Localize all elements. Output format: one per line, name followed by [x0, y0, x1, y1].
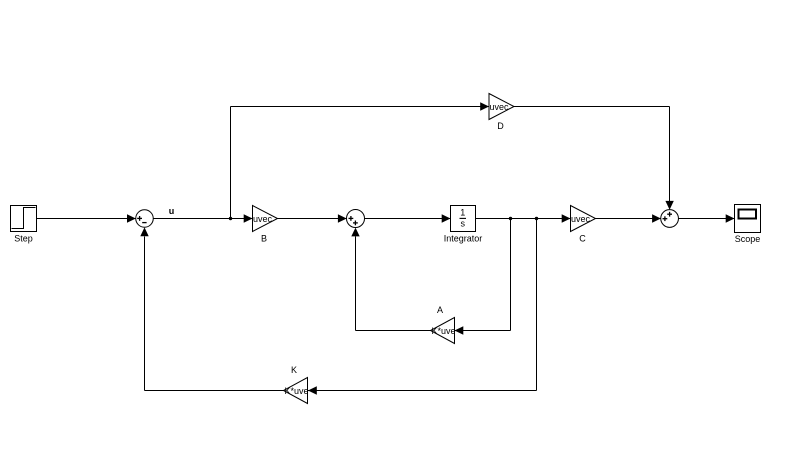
svg-text:D: D	[497, 121, 504, 131]
svg-text:B: B	[261, 233, 267, 243]
wire gain C to Sum3	[596, 218, 661, 220]
junction dot node to A feedback	[509, 217, 512, 220]
arrowhead into Sum3 left	[652, 214, 661, 222]
gain D	[489, 94, 514, 120]
svg-text:Scope: Scope	[735, 234, 761, 244]
wire Integrator to gain C	[476, 218, 571, 220]
svg-text:A: A	[437, 305, 443, 315]
svg-text:1: 1	[460, 208, 465, 218]
arrowhead into gain A	[455, 326, 464, 334]
arrowhead into Sum1	[127, 214, 136, 222]
wire gain K to Sum1 bottom	[145, 390, 284, 392]
junction dot node at branch to D	[229, 217, 232, 220]
arrowhead into gain K	[308, 386, 317, 394]
arrowhead into Integrator	[442, 214, 451, 222]
arrowhead into gain B	[244, 214, 253, 222]
svg-text:u: u	[169, 206, 175, 216]
scope block	[735, 205, 761, 233]
wire Step to Sum1	[37, 218, 136, 220]
arrowhead up into Sum2 bottom	[351, 228, 359, 237]
svg-text:Integrator: Integrator	[444, 233, 483, 243]
svg-text:K*uve: K*uve	[431, 326, 455, 336]
wire A branch vertical from junction	[510, 219, 512, 331]
wire gain D to Sum3 top	[514, 106, 670, 108]
junction dot node to K feedback	[535, 217, 538, 220]
wire branch up to D line	[230, 107, 232, 219]
sum junction Sum1	[136, 210, 154, 228]
integrator block 1/s	[451, 206, 476, 232]
wire K branch horizontal	[308, 390, 537, 392]
wire D branch horizontal top	[231, 106, 490, 108]
sum junction Sum2	[347, 210, 365, 228]
sum junction Sum3	[661, 210, 679, 228]
gain C	[571, 206, 596, 232]
gain K (flipped)	[284, 378, 309, 404]
svg-text:uvec: uvec	[489, 102, 509, 112]
arrowhead down into Sum3 top	[665, 201, 673, 210]
wire gain A to Sum2 bottom	[356, 330, 431, 332]
wire K branch vertical from junction	[536, 219, 538, 391]
wire Sum2 to Integrator	[365, 218, 451, 220]
svg-text:s: s	[461, 219, 466, 229]
wire Sum3 to Scope	[679, 218, 735, 220]
svg-text:uvec: uvec	[253, 214, 273, 224]
wire A branch horizontal	[455, 330, 511, 332]
arrowhead into Scope	[726, 214, 735, 222]
arrowhead into gain D	[480, 102, 489, 110]
svg-text:Step: Step	[14, 234, 33, 244]
gain A (flipped)	[431, 318, 456, 344]
wire Sum1 to gain B	[153, 218, 252, 220]
gain B	[253, 206, 278, 232]
arrowhead into gain C	[562, 214, 571, 222]
svg-text:K: K	[291, 365, 297, 375]
arrowhead into Sum2	[338, 214, 347, 222]
wire gain B to Sum2	[278, 218, 347, 220]
svg-text:C: C	[579, 233, 586, 243]
step source Step	[11, 206, 37, 232]
svg-text:uvec: uvec	[571, 214, 591, 224]
svg-text:K*uve: K*uve	[284, 386, 308, 396]
arrowhead up into Sum1 bottom	[140, 227, 148, 236]
